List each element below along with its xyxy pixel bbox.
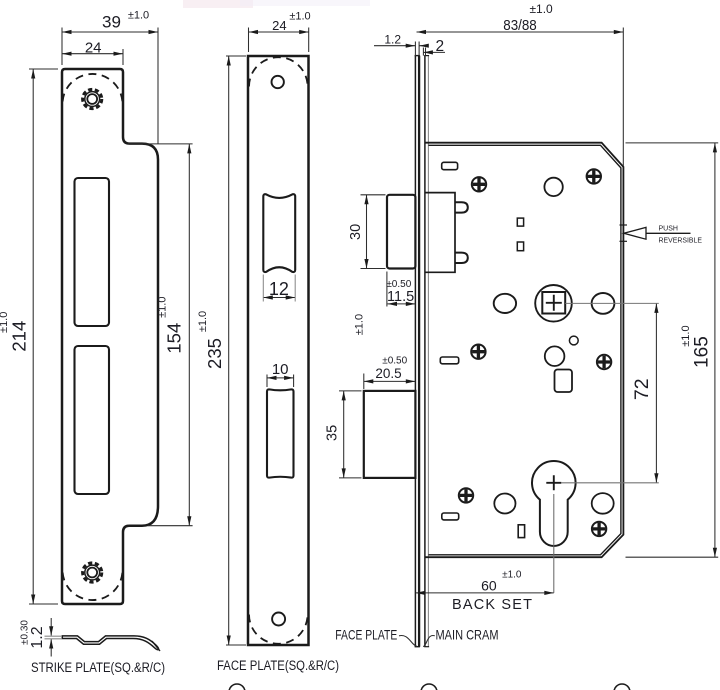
strike plate round-corner dashed arc bottom	[63, 573, 123, 601]
lock face plate strip line B	[418, 56, 420, 647]
push reversible arrow line	[646, 232, 691, 234]
case slot middle	[440, 357, 458, 364]
euro cylinder center cross	[546, 475, 561, 490]
main cram strip bottom cap	[424, 646, 429, 648]
svg-text:±1.0: ±1.0	[197, 311, 209, 332]
face plate bottom screw hole	[272, 613, 285, 626]
follower right circle	[592, 293, 615, 314]
lock face plate strip line A	[414, 56, 416, 647]
bottom circled markers	[152, 641, 630, 690]
face plate deadbolt cutout	[267, 389, 294, 477]
svg-text:72: 72	[631, 378, 653, 400]
dim 12 line	[263, 297, 295, 299]
svg-text:83/88: 83/88	[503, 18, 537, 34]
svg-text:39: 39	[102, 13, 121, 32]
svg-text:24: 24	[85, 40, 102, 57]
small vertical slot near cylinder	[518, 525, 524, 538]
svg-text:MAIN CRAM: MAIN CRAM	[436, 627, 499, 643]
svg-text:1.2: 1.2	[384, 33, 401, 47]
svg-text:154: 154	[164, 323, 185, 354]
case slot top	[442, 162, 458, 169]
lock case inner outline	[428, 145, 621, 555]
svg-text:165: 165	[692, 336, 713, 368]
svg-text:60: 60	[481, 577, 497, 593]
strike plate top screw hole serration	[83, 89, 102, 108]
svg-text:10: 10	[272, 361, 289, 378]
face plate dashed arc bottom	[249, 615, 308, 644]
svg-text:30: 30	[348, 224, 364, 240]
dim 1.2 lock line	[374, 42, 427, 56]
svg-text:±1.0: ±1.0	[128, 10, 149, 22]
lower left plain circle	[494, 494, 515, 514]
svg-text:FACE PLATE(SQ.&R/C): FACE PLATE(SQ.&R/C)	[217, 658, 339, 673]
screw top-left	[472, 177, 486, 191]
lock body group	[364, 56, 691, 647]
dim 30 line	[361, 195, 386, 269]
face plate dashed arc top	[249, 57, 308, 86]
follower outer circle	[535, 285, 572, 322]
svg-text:REVERSIBLE: REVERSIBLE	[659, 235, 703, 244]
svg-text:±1.0: ±1.0	[529, 2, 553, 16]
svg-text:±0.50: ±0.50	[382, 355, 407, 366]
svg-text:±1.0: ±1.0	[354, 314, 366, 335]
svg-text:24: 24	[272, 18, 286, 33]
face plate outline	[248, 56, 309, 645]
dim 72 line	[655, 303, 657, 482]
screw bottom-right	[592, 522, 606, 536]
svg-text:±1.0: ±1.0	[0, 312, 10, 333]
dim 35 line	[339, 391, 362, 478]
strike plate bottom screw hole inner	[87, 568, 97, 578]
svg-text:1.2: 1.2	[29, 626, 46, 648]
right edge tick lower	[620, 240, 628, 242]
svg-text:±1.0: ±1.0	[157, 297, 169, 318]
main cram strip top cap	[424, 55, 429, 57]
svg-text:±1.0: ±1.0	[289, 11, 310, 23]
lower right plain circle	[592, 493, 614, 514]
dim 39 line	[62, 28, 158, 145]
dim 24 face line	[249, 28, 309, 53]
latch bolt head	[387, 195, 415, 269]
svg-text:FACE PLATE: FACE PLATE	[335, 627, 397, 643]
dim 11.5 line	[387, 272, 415, 307]
dim 60 line	[416, 592, 554, 594]
latch bolt tail	[425, 193, 455, 273]
strike plate latch cutout	[75, 178, 110, 326]
svg-text:35: 35	[325, 425, 341, 441]
strike plate top screw hole ring	[85, 92, 100, 107]
svg-text:20.5: 20.5	[375, 366, 401, 381]
circled marker 1	[229, 684, 245, 690]
svg-text:235: 235	[204, 338, 225, 369]
lock face plate strip top cap	[415, 55, 420, 57]
euro cylinder profile	[532, 461, 576, 546]
dim 24 strike line	[62, 49, 123, 65]
dim 154 line	[128, 144, 193, 526]
latch pin upper	[455, 202, 468, 212]
push reversible hollow arrow	[624, 227, 646, 239]
rounded square stop	[555, 370, 573, 393]
deadbolt head	[364, 391, 416, 478]
follower left circle	[494, 294, 516, 313]
face plate leader	[399, 636, 417, 647]
circled marker 2	[421, 684, 437, 690]
strike plate group	[62, 69, 158, 604]
lock case outer outline	[425, 143, 624, 558]
scan artifact top smudge	[183, 0, 370, 8]
svg-text:PUSH: PUSH	[659, 224, 679, 233]
screw top-right	[587, 169, 601, 183]
svg-text:BACK SET: BACK SET	[452, 597, 532, 613]
dim 10 line	[267, 375, 294, 388]
circle below follower	[545, 346, 565, 366]
stray pen mark	[152, 641, 160, 651]
face plate top screw hole	[272, 76, 284, 88]
dim 165 line	[626, 143, 719, 557]
screw mid-right	[597, 355, 611, 369]
dim 2 line	[423, 51, 445, 53]
svg-text:±1.0: ±1.0	[680, 325, 692, 346]
svg-text:11.5: 11.5	[387, 289, 414, 305]
top plain circle	[544, 178, 562, 196]
main cram leader	[423, 636, 435, 647]
small square upper	[517, 218, 523, 226]
section strip outline	[62, 636, 158, 650]
latch pin lower	[455, 253, 468, 263]
dim 235 line	[226, 56, 246, 645]
follower cross	[546, 295, 562, 311]
main cram strip line C	[424, 56, 426, 647]
dim 20.5 line	[364, 374, 416, 390]
screw mid-left	[471, 345, 485, 359]
svg-text:±0.30: ±0.30	[20, 620, 31, 645]
right edge tick upper	[620, 224, 628, 226]
dim 214 line	[29, 69, 58, 604]
svg-text:STRIKE PLATE(SQ.&R/C): STRIKE PLATE(SQ.&R/C)	[31, 660, 165, 675]
main cram strip line D faint	[427, 56, 429, 647]
svg-text:214: 214	[9, 321, 30, 352]
svg-text:±1.0: ±1.0	[502, 569, 522, 580]
strike plate round-corner dashed arc top	[63, 74, 123, 102]
lock face plate strip bottom cap	[415, 646, 420, 648]
face plate group	[248, 56, 309, 645]
follower square	[542, 292, 565, 314]
face plate latch cutout	[263, 194, 295, 272]
dim 83/88 line	[417, 28, 624, 167]
svg-text:±0.50: ±0.50	[386, 279, 411, 290]
strike plate top screw hole inner	[87, 94, 97, 104]
strike plate bottom screw hole ring	[85, 565, 100, 580]
strike plate deadbolt cutout	[75, 346, 110, 494]
strike plate section view	[62, 636, 158, 650]
dim 1.2 section line	[50, 618, 52, 657]
small square lower	[517, 242, 523, 251]
strike plate outline	[62, 69, 158, 604]
strike plate bottom screw hole serration	[83, 563, 102, 582]
small circle below follower	[569, 336, 578, 345]
screw bottom-left	[459, 488, 473, 502]
circled marker 3	[614, 684, 630, 690]
svg-text:2: 2	[435, 38, 444, 55]
svg-text:12: 12	[269, 279, 289, 299]
case slot bottom	[442, 513, 459, 520]
